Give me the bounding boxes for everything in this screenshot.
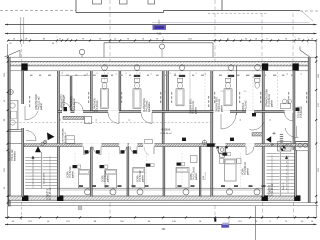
- door arc lower1b: [93, 147, 101, 155]
- svg-text:parket: parket: [142, 175, 145, 182]
- bath1 fixtures: [102, 65, 108, 71]
- room265 fixture: [282, 99, 286, 103]
- shelf line spremiste: [60, 74, 90, 76]
- svg-text:88: 88: [240, 119, 242, 121]
- wall x22 upper: [22, 71, 24, 104]
- wall x91 upper: [90, 71, 92, 113]
- svg-text:90: 90: [169, 73, 171, 75]
- balcony column 1: [85, 189, 91, 195]
- eaves line: [8, 56, 318, 58]
- svg-text:parket: parket: [271, 100, 274, 107]
- bath4 fixtures: [228, 65, 234, 71]
- svg-text:16x17,9: 16x17,9: [283, 182, 285, 190]
- svg-text:parket: parket: [247, 168, 250, 175]
- svg-text:P=3,93 m2: P=3,93 m2: [96, 100, 99, 112]
- entrance arrow: [47, 133, 55, 141]
- dimension line D: [5, 217, 317, 219]
- right kitchen wall: [295, 140, 308, 142]
- door tag 1: [85, 150, 89, 153]
- downpipe circle mid: [160, 44, 165, 49]
- entrance spiral: [44, 140, 47, 143]
- left dim chain: [7, 44, 9, 218]
- axis line D: [292, 13, 294, 63]
- svg-text:62: 62: [151, 73, 153, 75]
- roof outline dashed right: [300, 10, 319, 12]
- column bottom 4: [294, 195, 300, 201]
- wall x236 upper: [236, 66, 238, 115]
- wall x294: [293, 71, 295, 150]
- wall x190 upper faint: [189, 71, 191, 111]
- svg-text:keramika: keramika: [13, 151, 16, 161]
- column top 1: [21, 63, 27, 70]
- rooms bottom window wall: [57, 187, 262, 189]
- desk room5: [191, 156, 198, 163]
- bed lower 5: [225, 159, 237, 181]
- bed lower 3: [133, 168, 145, 189]
- north arrow: [266, 136, 271, 142]
- svg-text:88: 88: [205, 73, 207, 75]
- chimney 2: [120, 0, 128, 4]
- canopy outline: [104, 42, 213, 44]
- door arc bath2: [75, 102, 84, 111]
- nightstand bed5 left: [220, 159, 224, 164]
- svg-text:P=11,96 m2: P=11,96 m2: [272, 183, 274, 196]
- axis line C: [261, 13, 263, 63]
- svg-text:461: 461: [162, 228, 167, 231]
- stair top circle: [41, 142, 44, 145]
- corridor washbasin: [219, 147, 226, 153]
- stair lobby tag: [296, 108, 300, 112]
- extension lines top-left: [20, 17, 22, 44]
- wall x294 lower stair: [295, 150, 297, 197]
- svg-text:121: 121: [301, 73, 303, 76]
- bed tag 3: [146, 164, 150, 167]
- central wall x212: [211, 71, 213, 144]
- big door arc living: [221, 114, 236, 129]
- svg-text:90: 90: [253, 76, 255, 78]
- svg-text:parket: parket: [195, 173, 198, 180]
- room-edge dim columns: [29, 96, 30, 99]
- shaft box: [85, 117, 92, 124]
- svg-text:P=2,1 m2: P=2,1 m2: [205, 172, 207, 180]
- svg-text:90: 90: [231, 76, 233, 78]
- corridor bottom wall: [24, 144, 308, 147]
- door tag 2: [96, 150, 100, 153]
- wall x91 lower: [90, 147, 92, 197]
- svg-text:205: 205: [62, 72, 64, 75]
- chimney 1: [93, 0, 102, 4]
- door tag 5: [207, 143, 211, 146]
- staircase left: [28, 152, 58, 185]
- terrace edge lines: [8, 202, 318, 204]
- dim line A upper faint: [152, 21, 310, 23]
- extension stubs on C: [56, 37, 58, 46]
- door arc right corridor: [285, 128, 298, 138]
- column bottom 2: [57, 195, 63, 201]
- bed lower 1: [79, 170, 90, 189]
- door tag 8: [230, 138, 234, 141]
- balcony column 6: [254, 189, 260, 195]
- door arc room1: [108, 112, 119, 123]
- blue selection bottom: [222, 223, 228, 225]
- door arc bath1: [62, 102, 71, 111]
- inner wall face line: [9, 70, 310, 72]
- svg-text:12: 12: [107, 73, 109, 75]
- wall x263: [262, 71, 264, 197]
- svg-text:12: 12: [139, 73, 141, 75]
- balcony column 4: [183, 189, 189, 195]
- bath2 fixtures: [134, 65, 140, 71]
- room7 dashed axis: [252, 70, 254, 110]
- svg-text:parket: parket: [195, 107, 198, 114]
- door leaf room4: [153, 147, 155, 155]
- door tag 6: [211, 143, 215, 146]
- svg-text:4,61: 4,61: [157, 33, 162, 36]
- balcony column 2: [110, 189, 116, 195]
- right kitchen counter: [296, 142, 308, 151]
- door arc lower2a: [120, 147, 127, 154]
- corridor niche: [145, 140, 153, 144]
- wall x58 lower: [57, 147, 59, 197]
- svg-text:88: 88: [270, 119, 272, 121]
- bed tag 1: [73, 165, 77, 168]
- downpipe circle: [79, 49, 84, 54]
- svg-text:90: 90: [125, 73, 127, 75]
- column bottom 3: [262, 195, 268, 201]
- room7 toilet: [255, 78, 260, 82]
- right exterior wall: [308, 57, 310, 202]
- kitchen niche left upper: [10, 101, 18, 130]
- axis line B: [214, 0, 216, 63]
- wall x163 lower: [163, 147, 165, 197]
- stair up arrow right: [286, 158, 288, 190]
- room7 washbasin: [255, 65, 261, 71]
- highlighted dim label (blue): [158, 20, 160, 26]
- svg-text:P=3,24 m2: P=3,24 m2: [65, 132, 67, 143]
- svg-text:88: 88: [129, 119, 131, 121]
- wall x127 lower: [127, 147, 129, 197]
- micro dim stack: [280, 134, 283, 136]
- left wall column marker: [8, 89, 13, 94]
- hatched stub right: [252, 133, 262, 136]
- door tag 7: [182, 138, 186, 141]
- bath3 fixtures: [179, 65, 185, 71]
- door tag 4: [133, 150, 137, 153]
- bed lower 4: [176, 168, 189, 189]
- svg-text:88: 88: [175, 73, 177, 75]
- room265 dashed axis: [277, 72, 279, 108]
- bold tick: [214, 218, 216, 221]
- wall x200 lower: [199, 147, 201, 197]
- nightstand bed5 right: [237, 159, 241, 164]
- door arc lower1a: [84, 147, 92, 155]
- svg-text:P=4,60 m2: P=4,60 m2: [73, 98, 76, 110]
- dimension line B: [5, 33, 317, 35]
- door arc right hall: [249, 122, 263, 130]
- svg-text:88: 88: [287, 73, 289, 75]
- svg-text:75: 75: [195, 73, 197, 75]
- section line vertical: [255, 206, 257, 240]
- wall x70 divider: [70, 76, 72, 111]
- entry door arc: [25, 111, 38, 120]
- door tag 3: [121, 150, 125, 153]
- entry door arc 2: [26, 131, 36, 141]
- eaves ramp right: [300, 50, 310, 57]
- chimney 3: [148, 0, 155, 4]
- svg-text:90: 90: [96, 73, 98, 75]
- svg-text:P=5,60 m2: P=5,60 m2: [300, 106, 303, 118]
- axis line A: [109, 0, 111, 63]
- balcony column 3: [137, 189, 143, 195]
- terrace marker circle: [78, 206, 82, 210]
- svg-text:parket: parket: [221, 105, 224, 112]
- svg-text:16x17,9/28: 16x17,9/28: [44, 172, 46, 184]
- svg-text:P=11,96 m2: P=11,96 m2: [50, 187, 52, 200]
- bed tag 4: [177, 163, 181, 166]
- svg-text:120: 120: [60, 119, 62, 122]
- wall x167: [167, 71, 169, 113]
- balcony column 5: [227, 189, 233, 195]
- svg-text:205: 205: [244, 91, 247, 93]
- door arc lower4: [246, 147, 254, 155]
- dimension line A: [5, 24, 317, 26]
- stair up dashes: [32, 158, 34, 184]
- svg-text:205: 205: [166, 91, 168, 94]
- eaves ramp left: [5, 50, 21, 57]
- dimension line C: [8, 40, 317, 42]
- left exterior wall: [8, 57, 10, 206]
- door tag 9: [252, 113, 256, 116]
- column bottom 1: [22, 195, 28, 201]
- svg-text:88: 88: [96, 119, 98, 121]
- stair arrow left: [35, 146, 41, 152]
- bottom exterior wall: [9, 196, 301, 200]
- svg-text:P=24,46 m2: P=24,46 m2: [160, 133, 172, 135]
- corridor axis dashed: [8, 122, 210, 124]
- bed lower 2: [105, 170, 117, 189]
- bed tag 5: [223, 153, 227, 156]
- svg-text:P=5,18 m2: P=5,18 m2: [245, 100, 248, 112]
- roof valley diagonal: [301, 11, 313, 22]
- door arc lower3: [217, 147, 226, 156]
- roof outline solid: [75, 0, 77, 13]
- bed tag 2: [100, 165, 104, 168]
- hall stub wall: [63, 116, 84, 119]
- axis line E: [21, 44, 23, 63]
- vestibule fixtures: [66, 136, 75, 144]
- under-band dim chain texture: [30, 75, 33, 76]
- door arc lower2b: [130, 147, 137, 154]
- svg-text:keramika: keramika: [148, 102, 151, 112]
- roof outline dashed left: [0, 10, 76, 12]
- wall x22 lower: [22, 128, 24, 197]
- inner wall line left: [17, 101, 19, 130]
- column top 3: [292, 63, 298, 70]
- right dim chain: [315, 40, 317, 216]
- svg-text:parket: parket: [72, 171, 75, 178]
- radiator top-right: [278, 142, 292, 152]
- wall x58: [57, 71, 59, 144]
- section marker pinwheel: [281, 146, 286, 151]
- staircase right: [267, 153, 280, 155]
- svg-text:parket: parket: [40, 103, 43, 110]
- wall x163: [162, 71, 164, 144]
- door arc room2: [141, 112, 152, 123]
- svg-text:205: 205: [221, 91, 224, 93]
- svg-text:parket: parket: [107, 175, 110, 182]
- aux vline: [228, 216, 230, 228]
- door arc bedroom right: [285, 112, 294, 121]
- room3t dashed axis: [204, 69, 206, 110]
- spremiste door tag: [64, 107, 68, 111]
- top exterior wall: [9, 61, 310, 66]
- column marker mid: [202, 140, 206, 144]
- svg-text:88: 88: [87, 73, 89, 75]
- column top 2: [262, 63, 268, 70]
- dimension line E: [5, 223, 317, 225]
- corridor top wall: [58, 111, 293, 113]
- svg-text:HODNIK: HODNIK: [162, 130, 171, 132]
- wall x120 upper: [119, 71, 121, 113]
- left partition walls: [8, 129, 22, 131]
- bottom room axes: [74, 153, 76, 188]
- svg-text:62: 62: [116, 73, 118, 75]
